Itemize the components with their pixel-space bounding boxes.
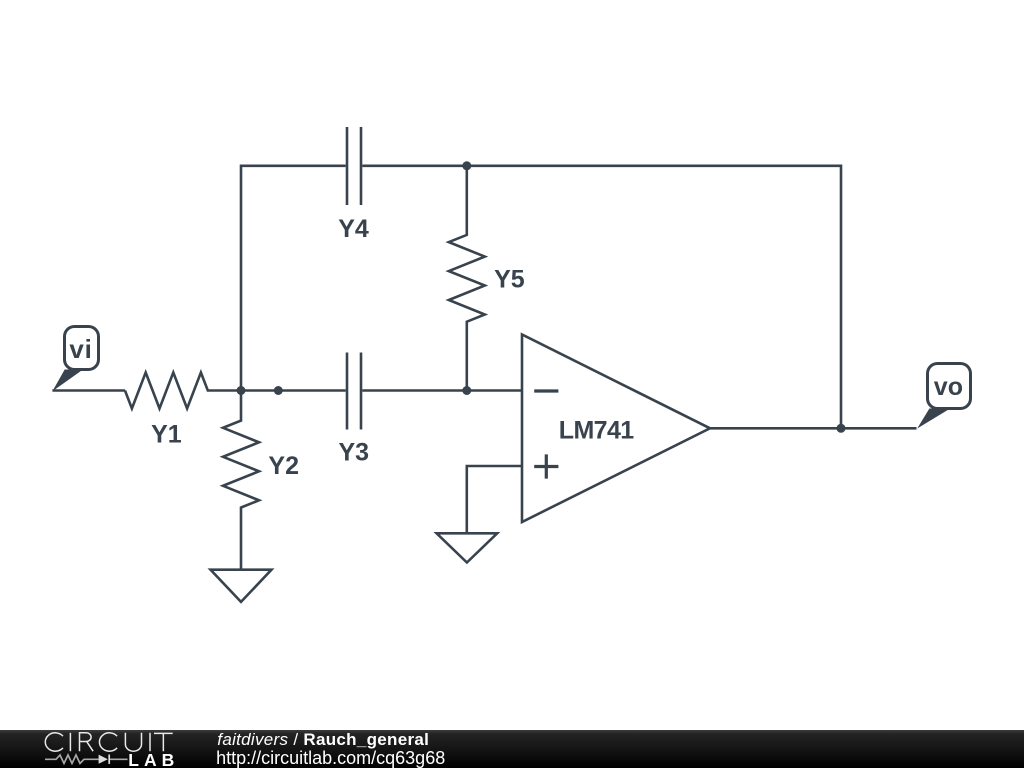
svg-text:Y5: Y5	[494, 265, 525, 293]
svg-text:http://circuitlab.com/cq63g68: http://circuitlab.com/cq63g68	[216, 748, 445, 768]
svg-text:Y3: Y3	[339, 439, 370, 467]
svg-text:faitdivers / Rauch_general: faitdivers / Rauch_general	[217, 730, 429, 749]
svg-text:Y1: Y1	[151, 420, 182, 448]
svg-text:LM741: LM741	[559, 416, 635, 444]
svg-text:vi: vi	[69, 334, 92, 364]
svg-text:LAB: LAB	[128, 750, 179, 768]
svg-text:vo: vo	[934, 373, 963, 401]
svg-text:Y4: Y4	[338, 215, 369, 243]
svg-text:Y2: Y2	[268, 452, 299, 480]
